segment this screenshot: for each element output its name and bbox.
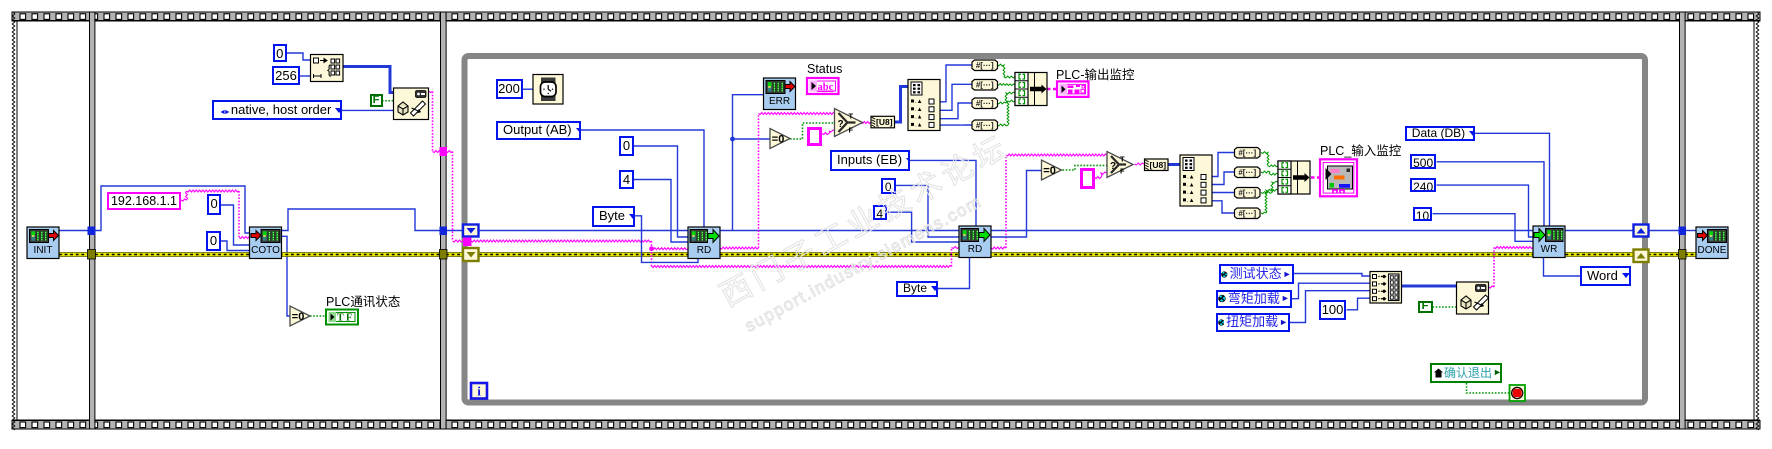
equal-zero comparator 2 xyxy=(1042,160,1062,180)
wire: index1 out3 xyxy=(940,103,972,119)
svg-text:F: F xyxy=(849,126,854,135)
svg-text:.▲: .▲ xyxy=(1187,198,1195,204)
wait ms icon xyxy=(533,75,563,105)
svg-text:#[···]: #[···] xyxy=(976,81,994,90)
frame divider 3 xyxy=(1680,13,1685,429)
wire: const 0 to RD1 xyxy=(634,146,688,237)
wire: slot constant 0 to COTO xyxy=(221,241,251,251)
select function 1 xyxy=(835,109,863,137)
frame 4 right border xyxy=(1753,20,1755,420)
wire: build array to flatten2 xyxy=(1402,285,1457,288)
ring Output AB xyxy=(496,121,581,140)
block COTO xyxy=(250,227,282,259)
wire: const 0 to RD2 xyxy=(896,185,959,237)
svg-text:#[···]: #[···] xyxy=(1238,149,1256,158)
wire: COTO conn out to frame tunnel xyxy=(281,209,441,231)
wire: RD1 string out to select top xyxy=(720,247,759,249)
wire: RD2 string out to select2 top xyxy=(991,247,1006,249)
svg-text:?: ? xyxy=(1110,161,1116,172)
constant 500 xyxy=(1410,154,1436,169)
shift register: loop left error xyxy=(463,248,479,261)
svg-text:T F: T F xyxy=(337,312,352,323)
index array 1 xyxy=(908,80,940,131)
wire: Data DB ring to WR top xyxy=(1475,133,1550,226)
label PLC comm state xyxy=(326,291,400,310)
wire: bool array zig 6 xyxy=(1261,171,1278,175)
wire: const 4 to RD1 xyxy=(634,180,688,243)
constant 4 rd1 xyxy=(619,170,634,189)
wire: global test state to build array xyxy=(1294,274,1371,277)
equal-zero comparator 1 xyxy=(770,129,790,149)
wire: flatten2 string to WR xyxy=(1489,286,1495,288)
number to boolean array 1-1 xyxy=(972,60,998,71)
shift register: loop left conn xyxy=(463,225,479,237)
wire: loop error main line xyxy=(479,252,1634,257)
wire: rack constant 0 to COTO xyxy=(221,205,251,245)
shift register: loop right error xyxy=(1634,250,1649,263)
svg-text:#[···]: #[···] xyxy=(1238,168,1256,177)
number to boolean array 1-4 xyxy=(972,120,998,131)
number to boolean array 2-2 xyxy=(1235,167,1261,178)
wire: array out to flatten xyxy=(343,67,394,93)
tunnel: string on divider2 xyxy=(440,147,448,156)
svg-text:.▲: .▲ xyxy=(1187,182,1195,188)
tunnel: error on divider2 xyxy=(440,250,448,260)
number to boolean array 2-1 xyxy=(1235,148,1261,159)
constant 240 xyxy=(1410,178,1436,193)
svg-text:#[···]: #[···] xyxy=(976,99,994,108)
wire: index1 out4 xyxy=(940,124,972,126)
wire: cluster to input monitor indicator xyxy=(1311,176,1320,179)
block ERR xyxy=(764,78,796,110)
wire: index1 out1 xyxy=(940,65,972,102)
while loop border xyxy=(465,56,1646,403)
wire: Byte ring to RD1 bottom xyxy=(635,216,698,263)
wire: byte array to index array 1 xyxy=(895,87,909,123)
wire: const 500 to WR top xyxy=(1437,162,1545,226)
wire: INIT error out to tunnel xyxy=(59,252,89,257)
wire: const 10 to WR xyxy=(1433,214,1534,242)
wire: empty string2 to select2 F xyxy=(1095,172,1108,179)
wire: bool array zig 1 xyxy=(997,64,1015,78)
wire: Word ring to WR bottom xyxy=(1544,258,1581,276)
svg-text:COTO: COTO xyxy=(251,245,280,256)
svg-text:#[···]: #[···] xyxy=(976,61,994,70)
select function 2 xyxy=(1107,152,1133,178)
svg-text:=0: =0 xyxy=(1043,165,1056,177)
wire: equal-zero2 boolean to select2 xyxy=(1063,165,1108,170)
array to cluster 2 xyxy=(1278,161,1310,194)
wire: byte order ring to flatten xyxy=(342,109,394,111)
watermark xyxy=(630,63,1109,397)
number to boolean array 2-3 xyxy=(1235,188,1261,199)
flat sequence right zigzag border xyxy=(1756,12,1759,430)
frame divider 1 xyxy=(90,13,94,429)
tunnel: conn on divider3 xyxy=(1679,227,1687,236)
wire: INIT conn out to tunnel xyxy=(59,230,89,232)
constant 100 xyxy=(1319,300,1346,321)
wire: flattened string to tunnel xyxy=(429,92,433,93)
frame divider 2 xyxy=(441,13,446,429)
boolean constant F 2 xyxy=(1418,301,1433,313)
number to boolean array 1-2 xyxy=(972,80,998,91)
wire: loop string tunnel to RD1 and branch xyxy=(471,240,652,242)
constant 256 xyxy=(272,66,300,85)
flat sequence outer filmstrip bottom band xyxy=(12,421,1760,430)
wire: frame4 to DONE xyxy=(1685,230,1696,232)
block RD2 xyxy=(959,226,991,258)
svg-text:=0: =0 xyxy=(772,134,785,146)
label PLC input monitor xyxy=(1320,140,1401,159)
svg-text:[U8]: [U8] xyxy=(876,117,893,127)
wire: empty string to select F xyxy=(822,130,835,135)
wire: frame2 conn from tunnel around IP label to COTO xyxy=(95,186,251,233)
svg-text:=0: =0 xyxy=(292,311,305,323)
constant 10 xyxy=(1413,207,1432,221)
constant 0 rack xyxy=(207,194,221,215)
wire: F to flatten xyxy=(382,100,394,102)
svg-text:F: F xyxy=(1120,167,1125,176)
block DONE xyxy=(1696,227,1728,259)
block WR xyxy=(1533,226,1565,258)
wire: bool array zig 8 xyxy=(1261,189,1278,214)
wire: string branch to RD2 xyxy=(651,249,653,267)
ring Word xyxy=(1580,266,1631,287)
tunnel: conn on divider1 xyxy=(88,227,96,236)
wire: loop conn main line xyxy=(479,230,1634,232)
flat sequence outer filmstrip top band xyxy=(12,12,1760,21)
flatten to string 1 xyxy=(394,88,429,120)
wire: cluster to output monitor indicator xyxy=(1047,88,1057,91)
wire: bool array zig 5 xyxy=(1261,152,1278,167)
constant 200 xyxy=(496,79,523,99)
initialize array icon xyxy=(311,55,344,82)
svg-text:.▲: .▲ xyxy=(915,107,923,113)
wire: confirm exit boolean to stop terminal xyxy=(1467,383,1510,393)
svg-text:?: ? xyxy=(838,119,844,130)
wire: index2 out3 xyxy=(1212,192,1235,194)
boolean reference confirm exit xyxy=(1430,363,1502,383)
label Status xyxy=(807,62,842,76)
wire: frame2 error line xyxy=(95,252,441,257)
wire: Output AB ring to RD1 top xyxy=(581,130,704,227)
shift register: loop right conn xyxy=(1634,225,1649,237)
svg-text:T: T xyxy=(1120,155,1125,164)
wire: frame3 error tunnel to shift register xyxy=(446,252,463,257)
array to cluster 1 xyxy=(1015,73,1047,106)
svg-text:ERR: ERR xyxy=(769,96,790,107)
wire: select2 out to byte array2 xyxy=(1135,163,1145,165)
empty string constant 2 xyxy=(1080,168,1095,189)
constant 0 top xyxy=(273,44,287,63)
ring Byte 1 xyxy=(592,206,635,227)
svg-text:T: T xyxy=(849,112,854,121)
junction: string branch dot xyxy=(649,246,654,251)
stop button terminal xyxy=(1510,385,1526,401)
wire: const 0 to initialize array xyxy=(287,53,311,60)
string to byte array 2 xyxy=(1145,159,1169,171)
frames bottom border line xyxy=(12,419,1760,421)
wire: select1 out to byte array xyxy=(861,122,871,124)
global torque load xyxy=(1216,313,1291,332)
wire: frame3 conn tunnel to shift register xyxy=(446,230,463,232)
wire: COTO status out down to equal-zero xyxy=(281,236,291,316)
boolean constant F 1 xyxy=(370,94,383,107)
ring Byte 2 xyxy=(896,281,938,297)
boolean indicator TF xyxy=(326,310,358,325)
svg-text:#[···]: #[···] xyxy=(1238,209,1256,218)
wire: RD1 status up to ERR and equal-zero xyxy=(733,95,764,231)
wire: index2 out1 xyxy=(1212,153,1235,177)
wire: const 100 to build array xyxy=(1347,298,1371,310)
wire: const 256 to initialize array xyxy=(300,75,311,77)
wire: frame3 right tunnels to frame4 xyxy=(1648,230,1679,232)
tunnel: conn on divider2 xyxy=(440,227,448,236)
wire: index2 out4 xyxy=(1212,201,1235,213)
wire: global torque load to build array xyxy=(1290,291,1370,323)
tunnel: error on divider1 xyxy=(88,250,96,260)
svg-text:#[···]: #[···] xyxy=(976,121,994,130)
build array icon xyxy=(1370,272,1402,304)
wire: Byte ring 2 to RD2 bottom xyxy=(938,258,970,289)
cluster indicator PLC input monitor xyxy=(1320,159,1357,196)
ring Data DB xyxy=(1405,126,1475,141)
equal-zero comparator frame2 xyxy=(290,306,310,326)
block RD1 xyxy=(688,227,720,259)
wire: const 240 to WR xyxy=(1437,185,1534,237)
global test state xyxy=(1219,264,1294,284)
block INIT xyxy=(27,227,59,259)
wire: equal-zero1 boolean to select xyxy=(790,123,835,139)
label PLC output monitor xyxy=(1056,64,1134,83)
empty string constant 1 xyxy=(807,127,822,147)
ring byte order xyxy=(212,100,342,120)
wire: bool array zig 7 xyxy=(1261,181,1278,193)
iteration terminal i xyxy=(471,383,487,399)
frame 1 left border xyxy=(16,20,18,420)
svg-text:#[···]: #[···] xyxy=(1238,189,1256,198)
svg-text:INIT: INIT xyxy=(34,245,53,256)
constant 4 rd2 xyxy=(873,205,888,220)
svg-text:.▲: .▲ xyxy=(1187,190,1195,196)
svg-text:i: i xyxy=(477,384,481,399)
number to boolean array 1-3 xyxy=(972,98,998,109)
flatten to string 2 xyxy=(1457,282,1489,314)
svg-text:.▲: .▲ xyxy=(915,115,923,121)
cluster indicator PLC output monitor xyxy=(1057,81,1089,97)
wire: frame3 string tunnel down to loop tunnel xyxy=(446,151,453,153)
index array 2 xyxy=(1180,155,1212,206)
wire: Inputs EB ring to RD2 top xyxy=(910,160,976,226)
constant 0 rd1 xyxy=(619,136,634,156)
svg-text:abc: abc xyxy=(818,82,834,93)
wire: bool array zig 3 xyxy=(997,92,1015,104)
svg-text:.▲: .▲ xyxy=(915,122,923,128)
svg-text:RD: RD xyxy=(697,245,711,256)
wire: boolean equal-zero to TF indicator xyxy=(310,315,326,317)
ring Inputs EB xyxy=(830,150,910,171)
constant 0 rd2 xyxy=(881,178,896,194)
wire: RD2 status to equal-zero2 xyxy=(991,171,1042,238)
svg-text:WR: WR xyxy=(1541,244,1558,255)
flat sequence left zigzag border xyxy=(12,12,15,430)
wire: bool array zig 2 xyxy=(997,84,1015,86)
wire: index2 out2 xyxy=(1212,172,1235,185)
frames top border line xyxy=(12,20,1760,22)
svg-text:RD: RD xyxy=(968,244,982,255)
svg-text:DONE: DONE xyxy=(1698,245,1727,256)
wire: index1 out2 xyxy=(940,84,972,110)
global bend load xyxy=(1216,290,1292,309)
string indicator Status xyxy=(807,78,839,94)
svg-text:[U8]: [U8] xyxy=(1150,160,1167,170)
wire: string IP to COTO xyxy=(181,191,188,201)
wire: global bend load to build array xyxy=(1292,283,1370,299)
svg-text:.▲: .▲ xyxy=(915,99,923,105)
constant 0 slot xyxy=(206,231,221,251)
string constant IP xyxy=(107,192,181,210)
wire: F2 to flatten2 xyxy=(1433,306,1457,308)
string to byte array 1 xyxy=(871,116,895,128)
number to boolean array 2-4 xyxy=(1235,208,1261,219)
wire: const 4 to RD2 xyxy=(887,212,959,242)
tunnel: loop left string xyxy=(463,238,472,247)
wire: bool array zig 4 xyxy=(997,100,1015,126)
svg-text:.▲: .▲ xyxy=(1187,175,1195,181)
wire: 200 to wait xyxy=(522,88,533,90)
tunnel: error on divider3 xyxy=(1679,250,1687,260)
wire: byte array2 to index array2 xyxy=(1168,163,1180,166)
